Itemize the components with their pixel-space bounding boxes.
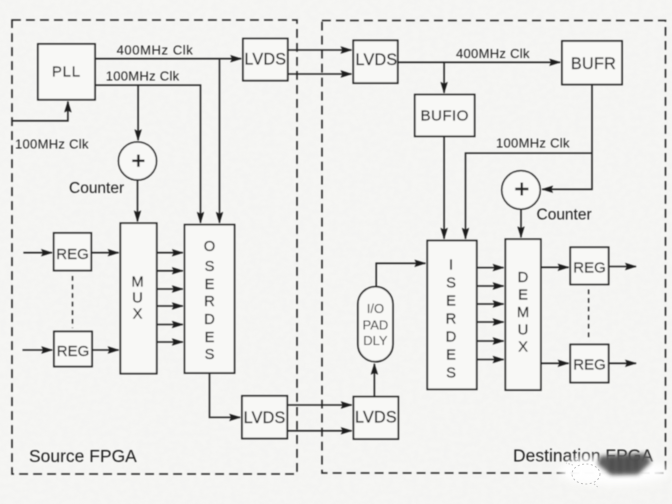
svg-text:400MHz Clk: 400MHz Clk: [117, 43, 194, 58]
register REG3: [570, 247, 608, 284]
dashed connector REG1-REG2: [72, 276, 74, 328]
LVDS3 transmit block: [242, 396, 287, 439]
wire BUFR down to counter: [542, 85, 592, 190]
svg-text:100MHz Clk: 100MHz Clk: [106, 69, 180, 84]
register REG2: [54, 332, 92, 367]
wire MUX to OSERDES bit0: [157, 252, 183, 254]
wire 400MHz Clk PLL to LVDS: [95, 58, 241, 60]
wire OSERDES to LVDS3: [210, 373, 241, 417]
register REG1: [54, 233, 92, 271]
svg-text:LVDS: LVDS: [356, 51, 398, 69]
wire ISERDES to DEMUX bit5: [477, 359, 504, 361]
wire MUX to OSERDES bit5: [157, 341, 183, 343]
svg-text:R: R: [446, 312, 457, 328]
svg-text:LVDS: LVDS: [355, 409, 397, 427]
ISERDES block: [427, 241, 476, 390]
wire ISERDES to DEMUX bit3: [477, 321, 504, 323]
wire input to REG2: [23, 349, 53, 351]
watermark scribble: [566, 456, 600, 488]
svg-text:E: E: [205, 330, 215, 346]
wire 100MHz Clk PLL to OSERDES: [95, 85, 201, 223]
wire ISERDES to DEMUX bit0: [477, 267, 504, 269]
svg-text:Counter: Counter: [537, 207, 592, 224]
label Counter (source): [69, 180, 124, 197]
watermark white halo: [559, 457, 669, 485]
svg-text:400MHz Clk: 400MHz Clk: [456, 46, 530, 61]
counter adder circle (source): [119, 142, 157, 180]
wire counter to DEMUX: [520, 209, 522, 237]
svg-text:E: E: [446, 294, 456, 310]
PLL U1: [38, 44, 95, 100]
svg-text:O: O: [204, 239, 216, 255]
counter adder circle (dest): [502, 171, 540, 209]
DEMUX block: [505, 239, 540, 390]
wire capsule to ISERDES: [376, 263, 425, 286]
svg-text:M: M: [131, 275, 143, 291]
svg-text:D: D: [446, 330, 457, 346]
label 100MHz Clk (dest): [496, 136, 570, 151]
wire DEMUX to REG3: [541, 266, 569, 268]
wire BUFIO to ISERDES: [443, 136, 445, 238]
wire input to REG1: [23, 252, 52, 254]
svg-text:E: E: [205, 277, 215, 293]
wire LVDS1 to LVDS2 pair n: [288, 73, 352, 75]
watermark grey blob: [598, 454, 652, 476]
label 400MHz Clk (dest): [456, 46, 530, 61]
svg-text:M: M: [517, 305, 529, 321]
svg-text:REG: REG: [56, 246, 89, 263]
label Destination FPGA: [513, 446, 653, 466]
svg-text:PAD: PAD: [363, 318, 389, 333]
svg-text:Source FPGA: Source FPGA: [29, 446, 137, 466]
svg-text:S: S: [205, 347, 215, 363]
Destination FPGA dashed frame: [322, 21, 666, 474]
wire MUX to OSERDES bit3: [157, 305, 183, 307]
svg-text:DLY: DLY: [363, 333, 388, 348]
wire REG4 output: [609, 362, 636, 364]
I/O pad delay capsule: [358, 287, 393, 362]
svg-text:D: D: [204, 312, 215, 328]
svg-text:E: E: [446, 348, 456, 364]
wire LVDS4 to capsule: [373, 364, 375, 397]
svg-text:100MHz Clk: 100MHz Clk: [496, 136, 570, 151]
OSERDES block: [185, 225, 235, 373]
svg-text:REG: REG: [573, 259, 606, 276]
svg-text:I: I: [449, 258, 453, 274]
svg-text:S: S: [446, 366, 456, 382]
wire LVDS2 to BUFR: [398, 61, 561, 63]
wire REG3 output: [609, 266, 636, 268]
svg-text:BUFR: BUFR: [571, 55, 616, 73]
svg-text:REG: REG: [573, 357, 606, 374]
wire ISERDES to DEMUX bit2: [477, 303, 504, 305]
wire DEMUX to REG4: [541, 362, 569, 364]
wire MUX to OSERDES bit4: [157, 324, 183, 326]
wire LVDS3 to LVDS4 pair p: [287, 404, 351, 406]
wire MUX to OSERDES bit1: [157, 270, 183, 272]
label 400MHz Clk (source): [117, 43, 194, 58]
wire REG1 to MUX: [91, 252, 118, 254]
label 100MHz Clk (source): [106, 69, 180, 84]
LVDS4 receive block: [354, 397, 399, 439]
wire MUX to OSERDES bit2: [157, 288, 183, 290]
wire 100MHz tee to ISERDES: [466, 153, 593, 239]
svg-text:X: X: [518, 340, 528, 356]
svg-text:S: S: [446, 276, 456, 292]
wire LVDS1 to LVDS2 pair p: [288, 49, 352, 51]
wire counter to MUX: [137, 180, 139, 221]
LVDS1 transmit block: [243, 39, 288, 81]
svg-text:U: U: [132, 291, 143, 307]
MUX block: [120, 223, 156, 373]
svg-text:D: D: [518, 270, 529, 286]
wire 100MHz branch to counter: [137, 85, 139, 140]
svg-text:100MHz Clk: 100MHz Clk: [15, 137, 89, 152]
svg-text:U: U: [518, 323, 529, 339]
svg-text:R: R: [204, 294, 215, 310]
svg-text:X: X: [133, 307, 143, 323]
svg-text:LVDS: LVDS: [244, 409, 286, 427]
wire LVDS3 to LVDS4 pair n: [287, 430, 351, 432]
label Counter (dest): [537, 207, 592, 224]
svg-text:REG: REG: [57, 343, 90, 360]
svg-text:E: E: [518, 288, 528, 304]
dashed connector REG3-REG4: [588, 290, 590, 342]
svg-text:LVDS: LVDS: [244, 50, 286, 68]
Source FPGA dashed frame: [12, 20, 297, 474]
wire ISERDES to DEMUX bit1: [477, 285, 504, 287]
BUFIO block: [415, 95, 475, 137]
wire 100MHz input to PLL: [12, 102, 68, 121]
register REG4: [570, 345, 608, 383]
svg-text:BUFIO: BUFIO: [420, 108, 468, 125]
wire branch to BUFIO: [443, 62, 445, 93]
svg-text:PLL: PLL: [52, 64, 81, 81]
LVDS2 receive block: [353, 40, 397, 83]
svg-text:S: S: [205, 259, 215, 275]
wire ISERDES to DEMUX bit4: [477, 340, 504, 342]
label 100MHz Clk (input): [15, 137, 89, 152]
svg-text:Counter: Counter: [69, 180, 124, 197]
svg-text:I/O: I/O: [367, 301, 384, 316]
BUFR block: [562, 41, 622, 85]
label Source FPGA: [29, 446, 137, 466]
wire REG2 to MUX: [92, 349, 119, 351]
wire 400MHz branch down to OSERDES: [219, 59, 221, 223]
